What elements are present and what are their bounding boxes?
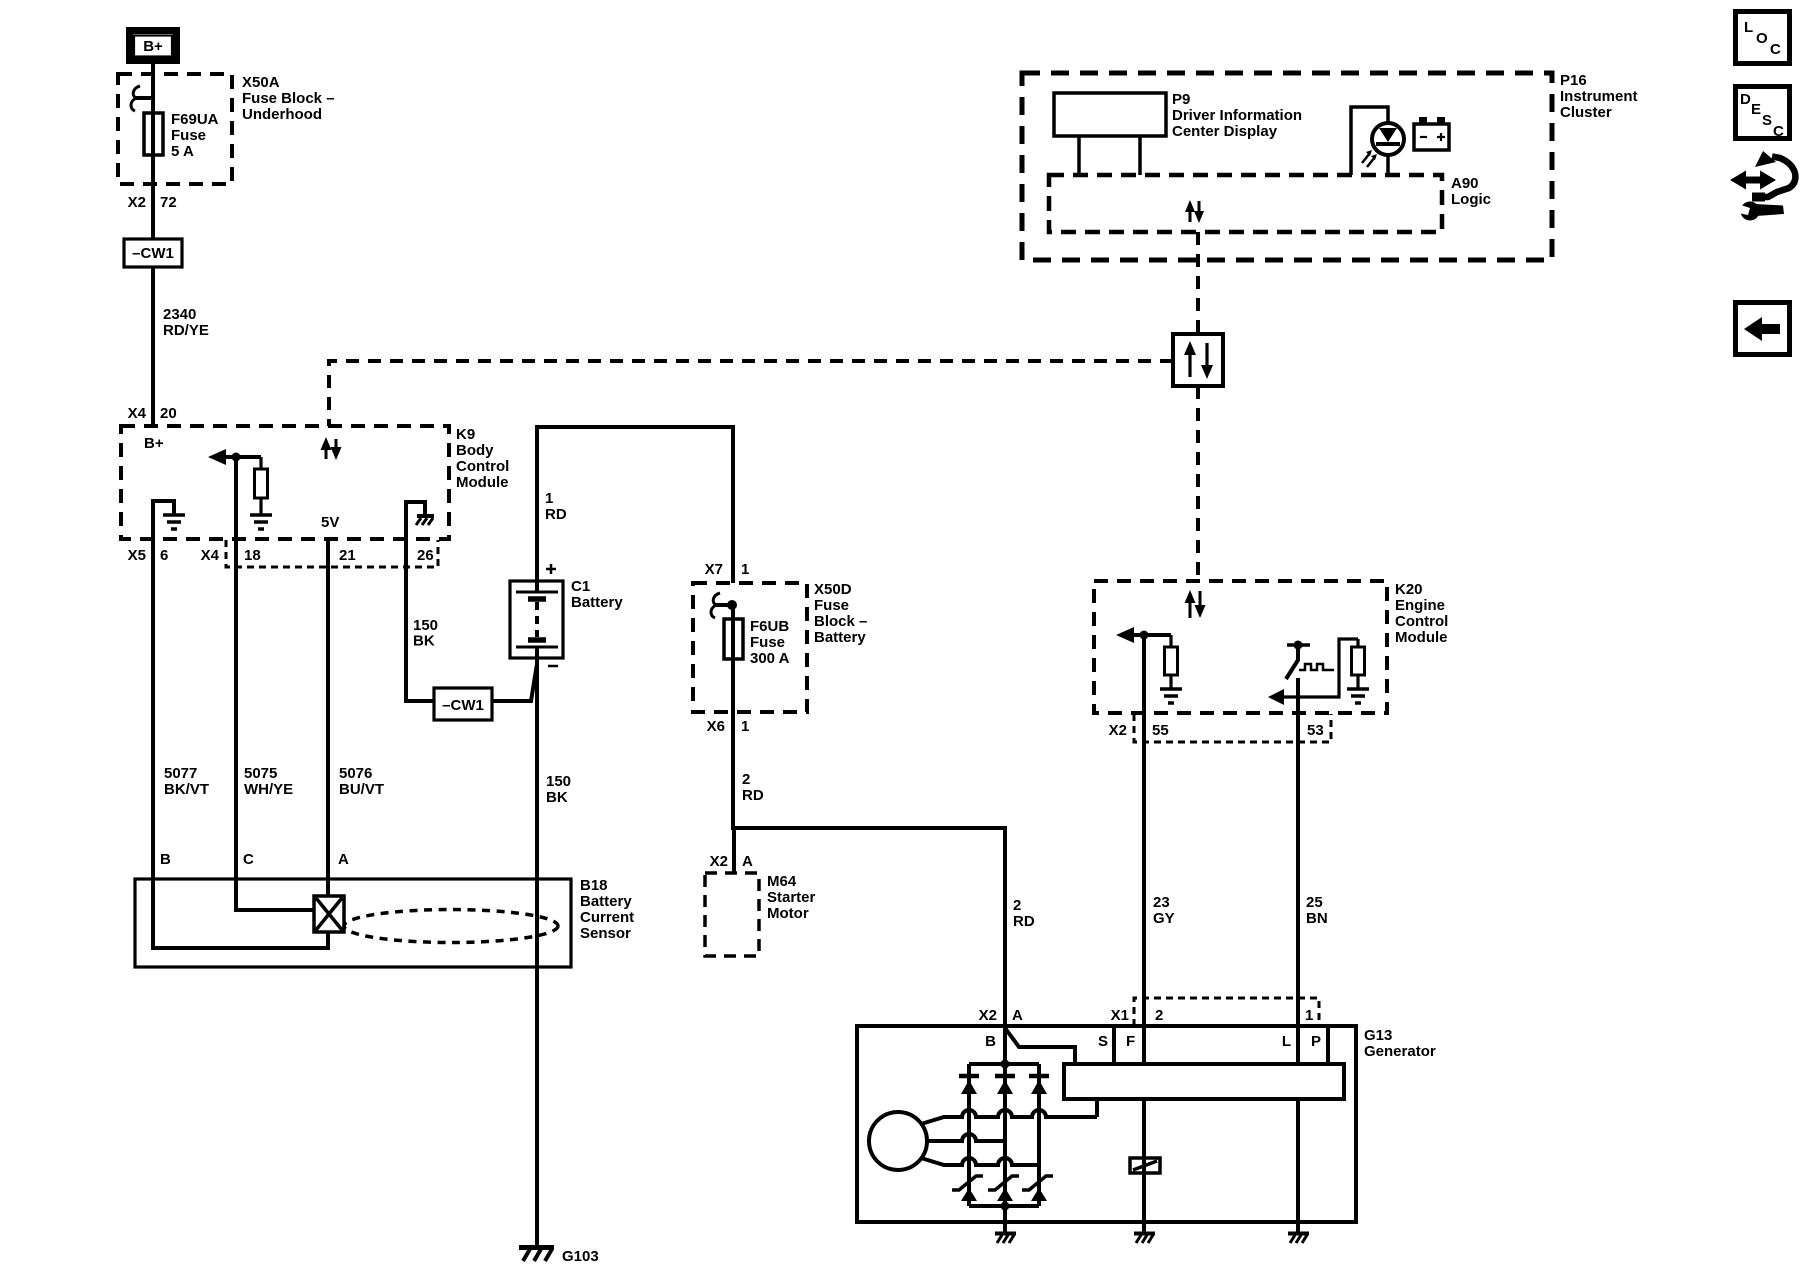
charge indicator lamp xyxy=(1351,107,1404,175)
svg-text:X7: X7 xyxy=(705,561,723,578)
svg-text:B: B xyxy=(160,851,171,868)
field brush element xyxy=(1130,1158,1160,1173)
svg-text:BU/VT: BU/VT xyxy=(339,781,384,798)
svg-text:Center Display: Center Display xyxy=(1172,123,1278,140)
battery C1 xyxy=(510,581,563,658)
serial data link box xyxy=(1173,334,1223,386)
svg-text:Battery: Battery xyxy=(814,629,866,646)
svg-text:D: D xyxy=(1740,91,1751,108)
svg-text:Current: Current xyxy=(580,909,634,926)
svg-text:5075: 5075 xyxy=(244,765,277,782)
power symbol B+ xyxy=(130,31,177,61)
ground earth left inside K9 xyxy=(153,501,185,539)
B18 battery current sensor box xyxy=(135,879,571,967)
svg-text:X2: X2 xyxy=(979,1007,997,1024)
svg-text:300 A: 300 A xyxy=(750,650,790,667)
svg-text:Underhood: Underhood xyxy=(242,106,322,123)
svg-text:Body: Body xyxy=(456,442,494,459)
icon data link connector tool xyxy=(1730,151,1795,221)
svg-text:1: 1 xyxy=(741,561,749,578)
svg-text:RD: RD xyxy=(742,787,764,804)
ground below field xyxy=(1134,1234,1155,1244)
svg-text:5 A: 5 A xyxy=(171,143,194,160)
battery minus sign xyxy=(548,665,558,668)
svg-text:B18: B18 xyxy=(580,877,608,894)
rectifier right leg xyxy=(1037,1064,1041,1206)
connector X2 dashed outline xyxy=(1134,714,1331,742)
svg-text:5V: 5V xyxy=(321,514,339,531)
serial data arrows in A90 xyxy=(1185,200,1204,223)
svg-text:2340: 2340 xyxy=(163,306,196,323)
svg-text:A: A xyxy=(742,853,753,870)
svg-text:Battery: Battery xyxy=(580,893,632,910)
wire A down to rectifier xyxy=(1003,1026,1007,1064)
wire 5075 WH/YE pin C xyxy=(234,457,238,879)
wire F to ground xyxy=(1142,1099,1146,1232)
svg-text:Fuse: Fuse xyxy=(750,634,785,651)
svg-text:55: 55 xyxy=(1152,722,1169,739)
stator phase top xyxy=(921,1110,1097,1124)
battery plus sign xyxy=(546,564,556,574)
fuse F69UA xyxy=(131,86,163,155)
avalanche diode lower left xyxy=(952,1176,983,1201)
avalanche diode lower right xyxy=(1022,1176,1053,1201)
K20 field control switch with PWM xyxy=(1268,639,1369,713)
wire 2 RD from fuse to junction xyxy=(731,605,735,830)
svg-text:6: 6 xyxy=(160,547,168,564)
ground below lamp driver xyxy=(1288,1234,1309,1244)
svg-text:Fuse: Fuse xyxy=(814,597,849,614)
svg-text:X1: X1 xyxy=(1111,1007,1129,1024)
wire 5076 BU/VT pin A xyxy=(326,537,330,896)
svg-text:Module: Module xyxy=(456,474,509,491)
svg-text:K20: K20 xyxy=(1395,581,1423,598)
wire 1 RD battery positive xyxy=(537,427,733,583)
svg-text:S: S xyxy=(1098,1033,1108,1050)
svg-text:Battery: Battery xyxy=(571,594,623,611)
avalanche diode lower middle xyxy=(988,1176,1019,1201)
svg-text:S: S xyxy=(1762,112,1772,129)
ground G103 xyxy=(519,1248,599,1266)
svg-text:150: 150 xyxy=(546,773,571,790)
svg-text:5077: 5077 xyxy=(164,765,197,782)
svg-text:L: L xyxy=(1282,1033,1291,1050)
wire B terminal to regulator xyxy=(1005,1028,1075,1064)
rectifier middle leg xyxy=(1003,1064,1007,1206)
svg-text:23: 23 xyxy=(1153,894,1170,911)
svg-text:Fuse Block –: Fuse Block – xyxy=(242,90,335,107)
diode upper right xyxy=(1029,1076,1049,1094)
svg-text:Fuse: Fuse xyxy=(171,127,206,144)
svg-text:B+: B+ xyxy=(143,38,163,55)
svg-text:A: A xyxy=(338,851,349,868)
svg-text:150: 150 xyxy=(413,617,438,634)
svg-text:X50D: X50D xyxy=(814,581,852,598)
svg-text:72: 72 xyxy=(160,194,177,211)
ground below rectifier xyxy=(995,1234,1016,1244)
svg-text:5076: 5076 xyxy=(339,765,372,782)
svg-text:X4: X4 xyxy=(201,547,220,564)
svg-text:X6: X6 xyxy=(707,718,725,735)
svg-text:25: 25 xyxy=(1306,894,1323,911)
diode upper middle xyxy=(995,1076,1015,1094)
svg-text:O: O xyxy=(1756,30,1768,47)
wire -CW1 to battery negative xyxy=(492,664,537,701)
svg-text:GY: GY xyxy=(1153,910,1175,927)
connector X4 dashed outline xyxy=(226,540,438,567)
regulator block xyxy=(1064,1064,1344,1099)
display P9 xyxy=(1054,93,1166,175)
rectifier top rail xyxy=(969,1062,1039,1066)
wire L to ground xyxy=(1296,1099,1300,1232)
svg-text:F: F xyxy=(1126,1033,1135,1050)
stator phase bottom xyxy=(921,1158,1039,1165)
svg-text:P16: P16 xyxy=(1560,72,1587,89)
svg-text:M64: M64 xyxy=(767,873,797,890)
svg-text:RD/YE: RD/YE xyxy=(163,322,209,339)
svg-text:Block –: Block – xyxy=(814,613,867,630)
svg-text:Sensor: Sensor xyxy=(580,925,631,942)
svg-text:X4: X4 xyxy=(128,405,147,422)
svg-text:–CW1: –CW1 xyxy=(132,245,174,262)
serial data dashed wire down from cluster xyxy=(1196,232,1200,334)
svg-text:Generator: Generator xyxy=(1364,1043,1436,1060)
svg-text:18: 18 xyxy=(244,547,261,564)
svg-text:X2: X2 xyxy=(1109,722,1127,739)
svg-text:L: L xyxy=(1744,19,1753,36)
svg-text:C: C xyxy=(1773,123,1784,140)
diode upper left xyxy=(959,1076,979,1094)
fuse block X50A dashed box xyxy=(118,74,232,184)
rectifier left leg xyxy=(967,1064,971,1206)
svg-text:1: 1 xyxy=(545,490,553,507)
svg-text:C: C xyxy=(1770,41,1781,58)
rotor circle xyxy=(869,1112,927,1170)
svg-text:26: 26 xyxy=(417,547,434,564)
svg-text:E: E xyxy=(1751,101,1761,118)
chassis ground right inside K9 xyxy=(406,502,434,539)
generator G13 box xyxy=(857,1026,1356,1222)
svg-text:P: P xyxy=(1311,1033,1321,1050)
svg-text:RD: RD xyxy=(545,506,567,523)
icon DESC button xyxy=(1736,87,1790,141)
icon LOC button xyxy=(1736,12,1790,64)
sensor dashed ellipse with arrow xyxy=(344,910,558,943)
svg-text:B+: B+ xyxy=(144,435,164,452)
svg-text:Control: Control xyxy=(1395,613,1448,630)
svg-text:G103: G103 xyxy=(562,1248,599,1265)
sensor internal wire C xyxy=(236,879,314,910)
svg-text:21: 21 xyxy=(339,547,356,564)
serial data arrows in K9 xyxy=(321,437,342,460)
svg-text:X2: X2 xyxy=(710,853,728,870)
wire 150 BK battery to G103 xyxy=(535,658,539,1246)
svg-text:RD: RD xyxy=(1013,913,1035,930)
serial data arrows in K20 xyxy=(1185,590,1206,618)
svg-text:Module: Module xyxy=(1395,629,1448,646)
K20 sense arrow with resistor to ground xyxy=(1116,627,1182,703)
serial data dashed wire to BCM xyxy=(329,361,1173,426)
regulator tab to stator xyxy=(1095,1099,1099,1117)
connector X1 dashed outline xyxy=(1134,998,1319,1026)
svg-text:Starter: Starter xyxy=(767,889,816,906)
svg-text:–CW1: –CW1 xyxy=(442,697,484,714)
svg-text:A90: A90 xyxy=(1451,175,1479,192)
svg-text:53: 53 xyxy=(1307,722,1324,739)
wire 23 GY xyxy=(1142,635,1146,1064)
svg-text:2: 2 xyxy=(1013,897,1021,914)
svg-text:F6UB: F6UB xyxy=(750,618,789,635)
svg-text:A: A xyxy=(1012,1007,1023,1024)
svg-text:G13: G13 xyxy=(1364,1027,1392,1044)
sensor element X square xyxy=(314,896,344,932)
svg-text:Driver Information: Driver Information xyxy=(1172,107,1302,124)
wire 5077 BK/VT pin B xyxy=(151,501,155,879)
sensor internal wire B loop xyxy=(153,879,328,948)
svg-text:20: 20 xyxy=(160,405,177,422)
svg-text:BK: BK xyxy=(546,789,568,806)
wire 2 RD to generator xyxy=(733,828,1005,1026)
svg-text:C: C xyxy=(243,851,254,868)
terminal stub S xyxy=(1112,1026,1116,1064)
svg-text:2: 2 xyxy=(1155,1007,1163,1024)
svg-text:BK: BK xyxy=(413,633,435,650)
svg-text:Cluster: Cluster xyxy=(1560,104,1612,121)
rectifier bottom rail xyxy=(969,1204,1039,1208)
svg-text:Logic: Logic xyxy=(1451,191,1491,208)
wire rectifier to ground xyxy=(1003,1206,1007,1232)
wire 2340 RD/YE xyxy=(151,267,155,426)
wire B+ to -CW1 xyxy=(151,64,155,239)
svg-text:B: B xyxy=(985,1033,996,1050)
inline connector -CW1 xyxy=(124,239,182,267)
battery telltale icon xyxy=(1414,117,1449,150)
svg-text:F69UA: F69UA xyxy=(171,111,219,128)
instrument cluster P16 dashed box xyxy=(1022,73,1552,260)
svg-text:BN: BN xyxy=(1306,910,1328,927)
svg-text:Motor: Motor xyxy=(767,905,809,922)
terminal stub P xyxy=(1326,1026,1330,1064)
svg-text:X2: X2 xyxy=(128,194,146,211)
svg-text:1: 1 xyxy=(741,718,749,735)
fuse block X50D dashed box xyxy=(693,583,807,712)
svg-text:Instrument: Instrument xyxy=(1560,88,1638,105)
BCM K9 dashed box xyxy=(121,426,449,539)
wire 150 BK from K9 pin 26 xyxy=(406,539,434,701)
svg-text:X5: X5 xyxy=(128,547,146,564)
starter motor M64 dashed box xyxy=(705,873,759,956)
svg-text:WH/YE: WH/YE xyxy=(244,781,293,798)
svg-text:C1: C1 xyxy=(571,578,590,595)
wire 25 BN xyxy=(1296,713,1300,1064)
fuse F6UB xyxy=(711,593,743,659)
svg-text:1: 1 xyxy=(1305,1007,1313,1024)
logic module A90 dashed box xyxy=(1049,175,1442,232)
svg-text:BK/VT: BK/VT xyxy=(164,781,209,798)
svg-text:P9: P9 xyxy=(1172,91,1190,108)
stator phase middle xyxy=(927,1134,1005,1141)
signal arrow with resistor to ground inside K9 xyxy=(208,449,272,529)
svg-text:K9: K9 xyxy=(456,426,475,443)
svg-text:Control: Control xyxy=(456,458,509,475)
svg-text:Engine: Engine xyxy=(1395,597,1445,614)
inline connector -CW1 lower xyxy=(434,688,492,720)
wire stub to starter X2 A xyxy=(732,828,736,873)
icon back button xyxy=(1736,303,1790,355)
svg-text:2: 2 xyxy=(742,771,750,788)
serial data dashed wire to ECM xyxy=(1196,386,1200,581)
svg-text:X50A: X50A xyxy=(242,74,280,91)
ECM K20 dashed box xyxy=(1094,581,1387,713)
